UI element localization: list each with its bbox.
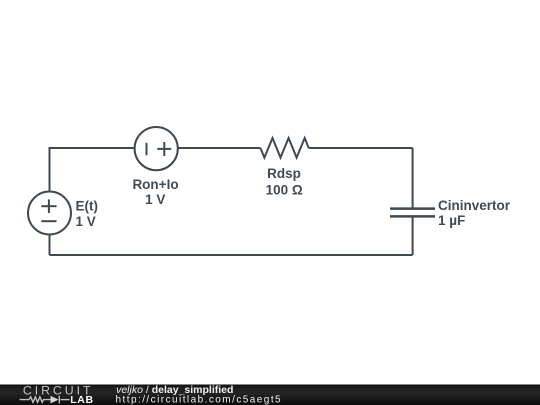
svg-text:Cininvertor: Cininvertor xyxy=(438,198,511,213)
svg-text:100 Ω: 100 Ω xyxy=(266,183,303,198)
svg-text:Ron+Io: Ron+Io xyxy=(132,177,178,192)
svg-text:LAB: LAB xyxy=(70,394,93,405)
svg-text:1 V: 1 V xyxy=(76,214,96,229)
svg-text:1 µF: 1 µF xyxy=(438,213,465,228)
svg-text:E(t): E(t) xyxy=(76,199,99,214)
svg-text:Rdsp: Rdsp xyxy=(267,166,301,181)
svg-text:1 V: 1 V xyxy=(145,192,165,207)
svg-text:http://circuitlab.com/c5aegt5: http://circuitlab.com/c5aegt5 xyxy=(116,394,283,405)
